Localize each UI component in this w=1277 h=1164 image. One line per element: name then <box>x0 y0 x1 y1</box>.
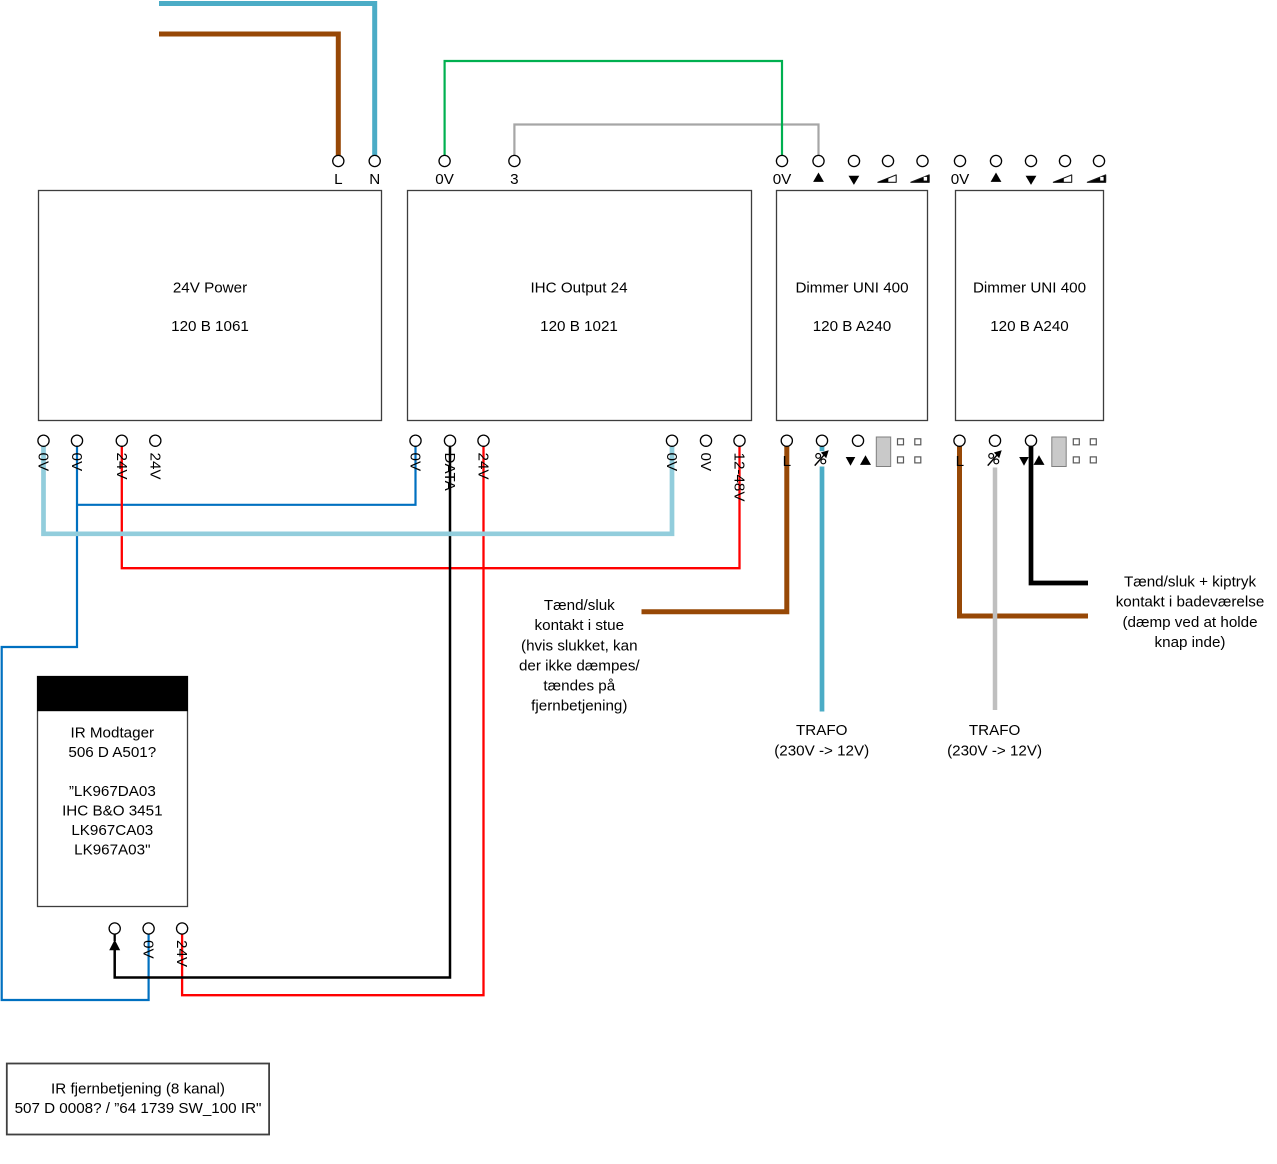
module IR Modtager <box>38 677 188 907</box>
svg-text:TRAFO: TRAFO <box>969 722 1021 739</box>
icon down triangle bottom U3 <box>846 457 856 466</box>
terminal down U4 <box>1025 155 1036 166</box>
terminal L U3 <box>781 435 792 446</box>
terminal 0V a U1 <box>38 435 49 446</box>
svg-text:0V: 0V <box>951 171 970 188</box>
terminal dim2 U4 <box>1093 155 1104 166</box>
svg-text:120 B A240: 120 B A240 <box>990 318 1069 335</box>
svg-text:tændes på: tændes på <box>543 678 615 695</box>
svg-text:120 B A240: 120 B A240 <box>813 318 892 335</box>
module Dimmer UNI 400 no.1 <box>777 191 928 421</box>
IR Modtager header <box>38 677 188 711</box>
terminal 0V a U2R <box>666 435 677 446</box>
terminal down U3 <box>848 155 859 166</box>
svg-text:knap inde): knap inde) <box>1155 634 1226 651</box>
icon dimmer load U4 <box>988 450 1002 465</box>
wire dimmer1 lamp to trafo (cyan) <box>820 467 825 712</box>
svg-text:0V: 0V <box>407 453 424 472</box>
terminal up U4 <box>990 155 1001 166</box>
icon connector block U3 <box>876 437 890 467</box>
svg-text:LK967CA03: LK967CA03 <box>71 822 153 839</box>
icon up triangle bottom U4 <box>1034 455 1045 465</box>
terminal 3 U2 <box>509 155 520 166</box>
wire 0V to IHC + IR (blue) <box>2 446 149 1000</box>
terminal 0V U2 <box>439 155 450 166</box>
terminal L U4 <box>954 435 965 446</box>
svg-text:(hvis slukket, kan: (hvis slukket, kan <box>521 637 637 654</box>
svg-text:24V: 24V <box>113 453 130 481</box>
svg-text:24V: 24V <box>173 940 190 968</box>
icon ramp outline U4 <box>1053 175 1071 182</box>
icon up triangle bottom U3 <box>860 455 871 465</box>
wire 24V to IR receiver (red) <box>182 446 483 995</box>
svg-text:der ikke dæmpes/: der ikke dæmpes/ <box>519 658 640 675</box>
MODULE TITLES <box>15 279 1086 1117</box>
svg-text:Dimmer UNI 400: Dimmer UNI 400 <box>973 279 1086 296</box>
icon up triangle U3 <box>813 173 824 182</box>
icon down triangle bottom U4 <box>1019 457 1029 466</box>
svg-text:(dæmp ved at holde: (dæmp ved at holde <box>1122 614 1257 631</box>
wire IR data stub <box>114 934 116 941</box>
BOTTOM TERMINAL LABELS (rotated) <box>35 453 748 968</box>
TOP TERMINAL LABELS <box>334 171 970 188</box>
svg-text:N: N <box>369 171 380 188</box>
module IR fjernbetjening <box>7 1064 269 1135</box>
wire DATA to IR receiver (black) <box>115 446 450 978</box>
wire 24V to 12-48V (red) <box>122 446 740 568</box>
svg-text:24V: 24V <box>146 453 163 481</box>
terminal 0V IR <box>143 923 154 934</box>
icon connector block U4 <box>1052 437 1066 467</box>
svg-text:3: 3 <box>510 171 518 188</box>
svg-text:24V Power: 24V Power <box>173 279 247 296</box>
terminal dim2 U3 <box>917 155 928 166</box>
terminal up U3 <box>813 155 824 166</box>
module 24V Power <box>39 191 382 421</box>
terminal aux U4 <box>1025 435 1036 446</box>
icon up triangle U4 <box>991 173 1002 182</box>
svg-text:120 B 1061: 120 B 1061 <box>171 318 249 335</box>
terminal lamp U4 <box>989 435 1000 446</box>
MODULES <box>38 191 1104 907</box>
svg-text:Tænd/sluk + kiptryk: Tænd/sluk + kiptryk <box>1124 574 1256 591</box>
icon down triangle U4 <box>1026 176 1037 185</box>
wire dimmer1 lamp stub (cyan) <box>820 446 825 451</box>
TERMINALS bottom row <box>38 435 1037 446</box>
svg-text:fjernbetjening): fjernbetjening) <box>531 698 627 715</box>
terminal dim1 U3 <box>882 155 893 166</box>
terminal 0V U3 <box>776 155 787 166</box>
terminal 12-48V U2 <box>734 435 745 446</box>
wire dimmer2 lamp to trafo (gray) <box>993 468 998 711</box>
svg-text:L: L <box>334 171 342 188</box>
module IHC Output 24 <box>408 191 752 421</box>
svg-text:Tænd/sluk: Tænd/sluk <box>544 597 615 614</box>
svg-text:IR fjernbetjening (8 kanal): IR fjernbetjening (8 kanal) <box>51 1081 225 1098</box>
svg-text:12-48V: 12-48V <box>731 453 748 503</box>
icon down triangle U3 <box>849 176 860 185</box>
terminal 0V U2L <box>410 435 421 446</box>
svg-text:(230V -> 12V): (230V -> 12V) <box>774 742 869 759</box>
wire 0V link U1-U3 (green) <box>445 61 782 156</box>
wire L feed (brown) <box>159 34 338 156</box>
icon dimmer load U3 <box>815 450 829 465</box>
svg-text:24V: 24V <box>475 453 492 481</box>
svg-text:506 D A501?: 506 D A501? <box>68 744 156 761</box>
svg-text:0V: 0V <box>140 940 157 959</box>
svg-text:TRAFO: TRAFO <box>796 722 848 739</box>
terminal 24V IR <box>177 923 188 934</box>
svg-text:”LK967DA03: ”LK967DA03 <box>69 783 156 800</box>
svg-text:LK967A03": LK967A03" <box>74 841 150 858</box>
svg-text:0V: 0V <box>697 453 714 472</box>
svg-text:0V: 0V <box>663 453 680 472</box>
svg-text:IHC Output 24: IHC Output 24 <box>530 279 627 296</box>
icon pin squares U4 <box>1073 439 1096 463</box>
module Dimmer UNI 400 no.2 <box>956 191 1104 421</box>
svg-text:IHC B&O 3451: IHC B&O 3451 <box>62 802 162 819</box>
TERMINALS top row <box>333 155 1105 166</box>
svg-text:0V: 0V <box>435 171 454 188</box>
icon ramp filled U4 <box>1087 175 1105 182</box>
svg-text:120 B 1021: 120 B 1021 <box>540 318 618 335</box>
icon pin squares U3 <box>898 439 921 463</box>
wire output 3 to dimmer (gray) <box>514 125 818 157</box>
svg-text:L: L <box>956 453 964 470</box>
terminal 24V U2 <box>478 435 489 446</box>
wire L switch badevaerelse (brown) <box>960 446 1089 616</box>
svg-text:Dimmer UNI 400: Dimmer UNI 400 <box>795 279 908 296</box>
svg-text:kontakt i badeværelse: kontakt i badeværelse <box>1116 594 1265 611</box>
terminal 24V a U1 <box>116 435 127 446</box>
wire 0V branch to IHC (blue) <box>77 446 416 505</box>
wire 0V bus (light blue) <box>44 446 673 534</box>
terminal 24V b U1 <box>150 435 161 446</box>
terminal 0V U4 <box>954 155 965 166</box>
NOTES <box>519 574 1264 760</box>
terminal 0V b U2R <box>700 435 711 446</box>
icon ramp outline U3 <box>878 175 896 182</box>
terminal data IR <box>109 923 120 934</box>
svg-text:0V: 0V <box>68 453 85 472</box>
wire L switch stue (brown) <box>642 446 787 612</box>
TERMINALS IR receiver <box>109 923 188 934</box>
terminal DATA U2 <box>444 435 455 446</box>
terminal N U1 <box>369 155 380 166</box>
svg-text:L: L <box>783 453 791 470</box>
terminal 0V b U1 <box>71 435 82 446</box>
arrowhead IR data <box>109 940 120 951</box>
svg-text:0V: 0V <box>35 453 52 472</box>
terminal dim1 U4 <box>1059 155 1070 166</box>
terminal L U1 <box>333 155 344 166</box>
wire kiptryk (black) <box>1031 446 1088 583</box>
svg-text:kontakt i stue: kontakt i stue <box>535 617 625 634</box>
terminal aux U3 <box>852 435 863 446</box>
icon ramp filled U3 <box>911 175 929 182</box>
svg-text:507 D 0008? / ”64 1739 SW_100: 507 D 0008? / ”64 1739 SW_100 IR" <box>15 1100 262 1117</box>
terminal lamp U3 <box>816 435 827 446</box>
svg-text:0V: 0V <box>773 171 792 188</box>
svg-text:IR Modtager: IR Modtager <box>71 724 155 741</box>
svg-text:DATA: DATA <box>441 453 458 492</box>
svg-text:(230V -> 12V): (230V -> 12V) <box>947 742 1042 759</box>
wire N feed (cyan) <box>159 4 375 157</box>
